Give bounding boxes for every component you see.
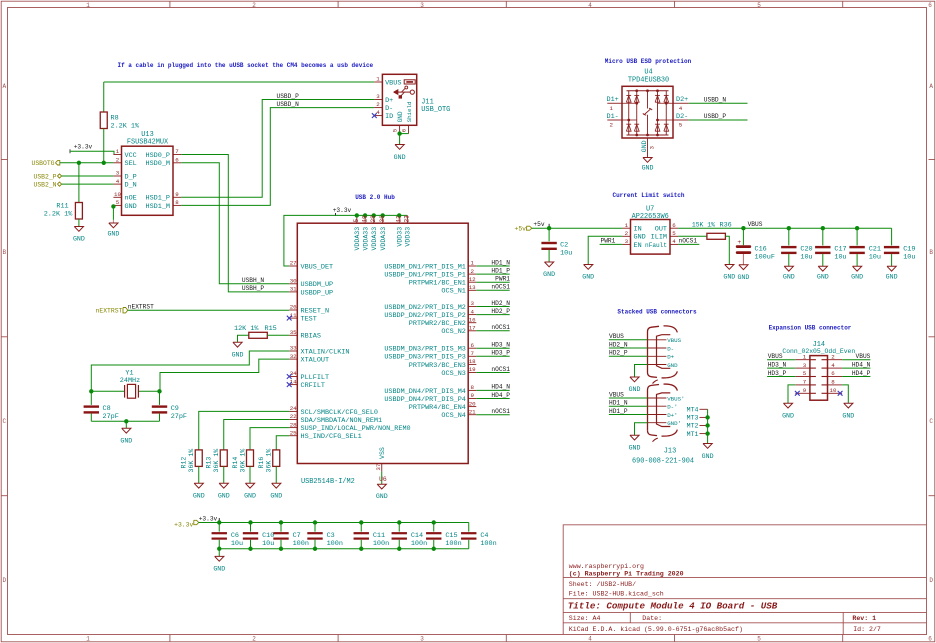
svg-text:HSD1_M: HSD1_M bbox=[146, 203, 170, 211]
hub +3.3v rail bbox=[284, 215, 336, 266]
svg-text:VBUS: VBUS bbox=[748, 221, 763, 228]
svg-text:C: C bbox=[929, 418, 933, 425]
svg-text:19: 19 bbox=[361, 215, 368, 223]
U4 pin2 D1- bbox=[607, 119, 622, 121]
U7 left pins bbox=[622, 227, 630, 229]
svg-text:GND: GND bbox=[642, 165, 654, 172]
svg-text:5: 5 bbox=[392, 128, 399, 132]
svg-text:GND: GND bbox=[232, 351, 244, 358]
svg-text:D1+: D1+ bbox=[607, 96, 619, 104]
svg-text:VDD33: VDD33 bbox=[405, 227, 412, 247]
svg-text:USBDP_DN4/PRT_DIS_P4: USBDP_DN4/PRT_DIS_P4 bbox=[384, 396, 466, 404]
svg-text:A: A bbox=[2, 83, 6, 90]
ground under U4 bbox=[643, 158, 652, 163]
svg-text:FSUSB42MUX: FSUSB42MUX bbox=[127, 139, 169, 147]
svg-text:23: 23 bbox=[404, 215, 411, 223]
frame row ticks bbox=[1, 159, 7, 161]
J14 pin7 to ground bbox=[788, 385, 795, 403]
svg-text:2: 2 bbox=[252, 2, 256, 9]
svg-text:5: 5 bbox=[757, 2, 761, 9]
svg-text:USB2514B-I/M2: USB2514B-I/M2 bbox=[301, 478, 355, 486]
svg-text:6: 6 bbox=[831, 370, 835, 377]
svg-text:U4: U4 bbox=[644, 69, 652, 77]
svg-text:12: 12 bbox=[396, 215, 403, 223]
svg-text:3: 3 bbox=[376, 93, 380, 100]
svg-text:1: 1 bbox=[86, 2, 90, 9]
resistor R11 bbox=[78, 163, 80, 203]
svg-text:MT1: MT1 bbox=[687, 431, 699, 438]
svg-text:USB_OTG: USB_OTG bbox=[421, 106, 450, 114]
svg-text:Expansion USB connector: Expansion USB connector bbox=[769, 325, 852, 332]
svg-text:100n: 100n bbox=[411, 540, 427, 548]
svg-text:OCS_N1: OCS_N1 bbox=[441, 288, 465, 296]
svg-text:2: 2 bbox=[470, 268, 474, 275]
ground under hub VSS bbox=[377, 484, 386, 489]
svg-text:GND: GND bbox=[702, 453, 714, 460]
svg-text:D+: D+ bbox=[385, 97, 393, 105]
svg-text:+: + bbox=[737, 239, 741, 246]
svg-text:4: 4 bbox=[116, 178, 120, 185]
svg-text:4: 4 bbox=[679, 105, 683, 112]
svg-text:GND: GND bbox=[218, 492, 230, 499]
wire SCL to R12 bbox=[199, 411, 289, 450]
wire USBD_N from U4 bbox=[689, 102, 748, 104]
svg-text:nEXTRST: nEXTRST bbox=[96, 308, 123, 315]
ground under R15 bbox=[233, 342, 242, 347]
wire gnd rail bbox=[219, 548, 469, 550]
svg-text:D-': D-' bbox=[667, 404, 677, 411]
ground under C6 bbox=[218, 549, 220, 557]
svg-text:28: 28 bbox=[370, 215, 377, 223]
wire VBUS rail bbox=[743, 227, 891, 229]
svg-text:21: 21 bbox=[469, 408, 476, 415]
svg-text:HD1_P: HD1_P bbox=[491, 267, 510, 274]
svg-text:USBD_P: USBD_P bbox=[704, 113, 727, 120]
svg-text:HD1_N: HD1_N bbox=[491, 259, 510, 266]
svg-text:Date:: Date: bbox=[642, 615, 662, 622]
ground under U13 pin5 bbox=[111, 204, 115, 208]
wire VBUS to J11 pin1 bbox=[104, 81, 375, 83]
svg-text:R16: R16 bbox=[258, 457, 265, 469]
svg-text:C14: C14 bbox=[411, 532, 423, 540]
decoupling caps on VBUS bbox=[788, 228, 790, 245]
svg-text:EN: EN bbox=[634, 242, 642, 250]
svg-text:GND: GND bbox=[376, 493, 388, 500]
svg-text:SEL: SEL bbox=[125, 160, 137, 168]
svg-text:R14: R14 bbox=[232, 457, 239, 469]
svg-text:PRTPWR3/BC_EN3: PRTPWR3/BC_EN3 bbox=[409, 362, 466, 370]
J14 pin9 no-connect bbox=[795, 391, 800, 396]
svg-text:USBOTG: USBOTG bbox=[31, 160, 54, 167]
ground under R14 bbox=[245, 483, 254, 488]
U4 center zener bbox=[647, 91, 649, 109]
U4 internal rails bbox=[627, 90, 669, 92]
svg-text:KiCad E.D.A. kicad (5.99.0-67: KiCad E.D.A. kicad (5.99.0-6751-g76ac8b5… bbox=[569, 626, 743, 633]
svg-text:2: 2 bbox=[610, 122, 614, 129]
svg-text:C11: C11 bbox=[373, 532, 385, 540]
svg-text:HSD0_P: HSD0_P bbox=[146, 152, 170, 160]
resistor R8 bbox=[103, 82, 105, 112]
svg-text:nEXTRST: nEXTRST bbox=[128, 303, 154, 310]
svg-text:1: 1 bbox=[116, 148, 120, 155]
title block outline bbox=[563, 525, 926, 635]
svg-text:USB2_P: USB2_P bbox=[33, 173, 56, 180]
capacitor C9 bbox=[159, 391, 161, 405]
svg-text:1: 1 bbox=[376, 76, 380, 83]
svg-text:17: 17 bbox=[469, 325, 476, 332]
svg-text:11: 11 bbox=[290, 312, 297, 319]
U4 GND pin3 bbox=[647, 138, 649, 151]
svg-text:+3.3v: +3.3v bbox=[174, 521, 193, 528]
svg-text:14: 14 bbox=[290, 378, 297, 385]
svg-text:USB 2.0 Hub: USB 2.0 Hub bbox=[355, 194, 395, 201]
svg-text:36K 1%: 36K 1% bbox=[188, 449, 195, 473]
svg-text:OUT: OUT bbox=[655, 226, 667, 234]
junction at R11 branch bbox=[77, 161, 81, 165]
svg-text:GND: GND bbox=[667, 362, 678, 369]
svg-text:HD3_P: HD3_P bbox=[768, 370, 787, 377]
wire SUSP_IND to R14 bbox=[250, 428, 289, 450]
svg-text:4: 4 bbox=[376, 109, 380, 116]
J13 upper gnd bbox=[635, 365, 648, 378]
capacitor C10 bbox=[248, 520, 252, 524]
svg-text:6: 6 bbox=[928, 636, 932, 643]
wire USBOTG to U13 SEL bbox=[60, 162, 114, 164]
svg-text:HD3_P: HD3_P bbox=[491, 350, 510, 357]
svg-text:9: 9 bbox=[470, 392, 474, 399]
ground under R11 bbox=[74, 227, 83, 232]
svg-text:+3.3v: +3.3v bbox=[74, 144, 93, 151]
wire MT pins to ground bbox=[707, 409, 709, 443]
svg-text:VDDA33: VDDA33 bbox=[371, 227, 378, 251]
svg-text:3: 3 bbox=[470, 300, 474, 307]
svg-text:31: 31 bbox=[290, 286, 297, 293]
svg-text:30: 30 bbox=[290, 278, 297, 285]
svg-text:nOCS1: nOCS1 bbox=[491, 366, 510, 373]
svg-text:IN: IN bbox=[634, 226, 642, 234]
svg-text:VSS: VSS bbox=[379, 447, 386, 459]
svg-text:GND: GND bbox=[193, 492, 205, 499]
svg-text:VBUS: VBUS bbox=[667, 337, 681, 344]
J11 usb logo bbox=[398, 91, 411, 93]
power +3.3v at U13 pin1 bbox=[69, 149, 71, 153]
ground under R36 bbox=[725, 265, 734, 270]
svg-text:2: 2 bbox=[625, 230, 629, 237]
junction crystal right bbox=[157, 389, 161, 393]
wire +3.3v rail bbox=[199, 522, 469, 524]
connector J13 lower shell bbox=[648, 385, 660, 431]
svg-text:D: D bbox=[929, 577, 933, 584]
svg-text:GND: GND bbox=[120, 437, 132, 444]
mux U13 body bbox=[122, 146, 174, 215]
svg-text:5: 5 bbox=[757, 636, 761, 643]
svg-text:10u: 10u bbox=[903, 254, 915, 262]
J11 blade graphic bbox=[404, 80, 415, 84]
J13 upper wires bbox=[609, 339, 648, 341]
wire HSD1_M to J11 D- bbox=[181, 108, 374, 206]
svg-text:TPD4EUSB30: TPD4EUSB30 bbox=[628, 76, 669, 84]
J11 pin4 ID no-connect bbox=[374, 115, 382, 117]
svg-text:GND: GND bbox=[817, 274, 829, 281]
J11 pins 5 and 6 stubs bbox=[399, 125, 401, 133]
hub VSS pin 37 bbox=[381, 464, 383, 472]
svg-text:HSD1_P: HSD1_P bbox=[146, 195, 170, 203]
svg-text:28: 28 bbox=[290, 421, 297, 428]
wire HSD0_P to hub USBDP_UP bbox=[181, 155, 289, 292]
svg-text:HD1_P: HD1_P bbox=[609, 408, 628, 415]
ground under R16 bbox=[272, 483, 281, 488]
svg-text:3: 3 bbox=[420, 636, 424, 643]
svg-text:20: 20 bbox=[469, 400, 476, 407]
svg-text:USBD_N: USBD_N bbox=[704, 96, 727, 103]
svg-text:10: 10 bbox=[830, 387, 837, 394]
svg-text:www.raspberrypi.org: www.raspberrypi.org bbox=[569, 563, 644, 570]
svg-text:9: 9 bbox=[803, 387, 807, 394]
svg-text:Size: A4: Size: A4 bbox=[569, 615, 601, 622]
svg-text:+5v: +5v bbox=[533, 221, 544, 228]
svg-text:1: 1 bbox=[86, 636, 90, 643]
svg-text:4: 4 bbox=[672, 238, 676, 245]
svg-text:8: 8 bbox=[470, 384, 474, 391]
capacitor C4 bbox=[468, 523, 470, 532]
svg-text:nFault: nFault bbox=[645, 242, 667, 249]
resistor R14 bbox=[247, 450, 254, 467]
J11 pin2 D- bbox=[374, 107, 382, 109]
svg-text:22: 22 bbox=[290, 413, 297, 420]
ground under crystal bbox=[122, 428, 131, 433]
svg-text:USB2_N: USB2_N bbox=[33, 182, 56, 189]
svg-text:SDA/SMBDATA/NON_REM1: SDA/SMBDATA/NON_REM1 bbox=[301, 417, 383, 425]
svg-text:MT3: MT3 bbox=[687, 415, 699, 422]
frame column ticks bbox=[169, 1, 171, 7]
svg-text:Current Limit switch: Current Limit switch bbox=[612, 192, 684, 199]
svg-text:R13: R13 bbox=[206, 457, 213, 469]
svg-text:100uF: 100uF bbox=[755, 253, 775, 261]
svg-text:HD3_N: HD3_N bbox=[491, 342, 510, 349]
svg-text:PWR1: PWR1 bbox=[495, 276, 510, 283]
svg-text:VDDA33: VDDA33 bbox=[380, 227, 387, 251]
ground under R13 bbox=[219, 483, 228, 488]
svg-text:32: 32 bbox=[290, 353, 297, 360]
svg-text:Shield: Shield bbox=[406, 102, 413, 123]
svg-text:HD4_N: HD4_N bbox=[491, 384, 510, 391]
svg-text:Id: 2/7: Id: 2/7 bbox=[853, 626, 881, 633]
svg-text:100n: 100n bbox=[373, 540, 389, 548]
svg-text:If a cable in plugged into the: If a cable in plugged into the uUSB sock… bbox=[118, 62, 374, 69]
wire USB2_P to U13 D_P bbox=[62, 175, 114, 177]
ground under U7 pin2 bbox=[584, 265, 593, 270]
wire +5v to U7 IN bbox=[532, 227, 623, 229]
svg-text:USBDP_DN3/PRT_DIS_P3: USBDP_DN3/PRT_DIS_P3 bbox=[384, 354, 466, 362]
J13 lower gnd bbox=[635, 423, 648, 436]
svg-text:B: B bbox=[929, 249, 933, 256]
wire XTALIN bbox=[91, 351, 289, 391]
U4 pin1 D1+ bbox=[607, 102, 622, 104]
svg-text:VDD33: VDD33 bbox=[396, 227, 403, 247]
hub top power pins bbox=[356, 215, 358, 223]
J11 pin3 D+ bbox=[374, 99, 382, 101]
svg-text:nOCS1: nOCS1 bbox=[679, 238, 698, 245]
hub TEST no-connect bbox=[287, 316, 292, 321]
svg-text:4: 4 bbox=[831, 362, 835, 369]
svg-text:GND: GND bbox=[244, 492, 256, 499]
svg-text:6: 6 bbox=[928, 2, 932, 9]
svg-text:HSD0_M: HSD0_M bbox=[146, 160, 170, 168]
U4 pin5 D2- bbox=[673, 119, 689, 121]
svg-text:24: 24 bbox=[290, 405, 297, 412]
svg-text:HS_IND/CFG_SEL1: HS_IND/CFG_SEL1 bbox=[301, 433, 362, 441]
svg-text:USBDP_DN2/PRT_DIS_P2: USBDP_DN2/PRT_DIS_P2 bbox=[384, 312, 466, 320]
svg-text:Stacked USB connectors: Stacked USB connectors bbox=[617, 309, 697, 316]
svg-text:+5v: +5v bbox=[514, 226, 526, 233]
svg-text:VCC: VCC bbox=[125, 152, 137, 160]
svg-text:10u: 10u bbox=[834, 254, 846, 262]
svg-text:8: 8 bbox=[175, 199, 179, 206]
wire HS_IND to R16 bbox=[276, 436, 289, 450]
svg-text:MT2: MT2 bbox=[687, 423, 699, 430]
wire J11 shield to ground bbox=[400, 133, 409, 135]
svg-text:D: D bbox=[2, 577, 6, 584]
svg-text:10: 10 bbox=[114, 191, 121, 198]
svg-text:C21: C21 bbox=[869, 246, 881, 254]
svg-text:HD2_N: HD2_N bbox=[491, 300, 510, 307]
svg-text:SCL/SMBCLK/CFG_SEL0: SCL/SMBCLK/CFG_SEL0 bbox=[301, 409, 379, 417]
hub U6 body bbox=[297, 223, 468, 463]
svg-text:GND: GND bbox=[629, 444, 641, 451]
capacitor C14 bbox=[397, 520, 401, 524]
svg-text:R11: R11 bbox=[56, 203, 68, 211]
svg-text:File: USB2-HUB.kicad_sch: File: USB2-HUB.kicad_sch bbox=[569, 590, 664, 597]
svg-text:36K 1%: 36K 1% bbox=[266, 449, 273, 473]
svg-text:4: 4 bbox=[588, 636, 592, 643]
svg-text:1: 1 bbox=[470, 260, 474, 267]
svg-text:5: 5 bbox=[679, 122, 683, 129]
hub PLLFILT no-connect bbox=[287, 374, 292, 379]
svg-text:GND: GND bbox=[213, 566, 225, 573]
svg-text:VBUS: VBUS bbox=[856, 353, 871, 360]
svg-text:D-: D- bbox=[385, 105, 393, 113]
svg-text:5: 5 bbox=[672, 230, 676, 237]
svg-text:26: 26 bbox=[290, 304, 297, 311]
wire crystal caps to ground bbox=[91, 420, 159, 422]
hub left pins bbox=[289, 265, 297, 267]
svg-text:C8: C8 bbox=[103, 405, 111, 413]
svg-text:VDDA33: VDDA33 bbox=[362, 227, 369, 251]
J14 right wires bbox=[842, 359, 870, 361]
svg-text:USBDM_UP: USBDM_UP bbox=[301, 281, 334, 289]
svg-text:9: 9 bbox=[175, 191, 179, 198]
svg-text:HD2_N: HD2_N bbox=[609, 341, 628, 348]
svg-text:USBH_N: USBH_N bbox=[242, 277, 265, 284]
svg-text:GND: GND bbox=[629, 386, 641, 393]
svg-text:2.2K 1%: 2.2K 1% bbox=[111, 123, 140, 131]
svg-text:VBUS: VBUS bbox=[609, 391, 624, 398]
wire +3.3v to U13 VCC bbox=[70, 151, 114, 154]
svg-text:VBUS: VBUS bbox=[768, 353, 783, 360]
svg-text:100n: 100n bbox=[327, 540, 343, 548]
svg-text:GND: GND bbox=[270, 492, 282, 499]
resistor R13 bbox=[220, 450, 227, 467]
capacitor C11 bbox=[359, 520, 363, 524]
wire XTALOUT bbox=[160, 359, 289, 391]
svg-text:6: 6 bbox=[672, 222, 676, 229]
svg-text:C19: C19 bbox=[903, 246, 915, 254]
svg-text:12: 12 bbox=[469, 276, 476, 283]
svg-text:XTALIN/CLKIN: XTALIN/CLKIN bbox=[301, 348, 350, 356]
svg-text:GND: GND bbox=[394, 154, 406, 161]
svg-text:35: 35 bbox=[290, 329, 297, 336]
svg-text:RBIAS: RBIAS bbox=[301, 333, 321, 341]
svg-text:GND: GND bbox=[634, 234, 646, 242]
svg-text:D+: D+ bbox=[667, 354, 674, 361]
capacitor C19 bbox=[891, 228, 893, 245]
svg-text:D_P: D_P bbox=[125, 173, 137, 181]
svg-text:GND: GND bbox=[783, 274, 795, 281]
svg-text:GND: GND bbox=[125, 203, 137, 211]
svg-text:HD4_N: HD4_N bbox=[852, 362, 871, 369]
svg-text:18: 18 bbox=[469, 358, 476, 365]
svg-text:8: 8 bbox=[831, 379, 835, 386]
svg-text:HD4_P: HD4_P bbox=[852, 370, 871, 377]
wire nEXTRST to RESET_N bbox=[128, 309, 289, 311]
svg-text:VBUS: VBUS bbox=[385, 79, 401, 87]
ground under R12 bbox=[194, 483, 203, 488]
svg-text:VBUS_DET: VBUS_DET bbox=[301, 263, 334, 271]
svg-text:RESET_N: RESET_N bbox=[301, 307, 330, 315]
capacitor C2 bbox=[548, 228, 550, 241]
svg-text:R8: R8 bbox=[111, 115, 119, 123]
svg-text:GND: GND bbox=[582, 274, 594, 281]
svg-text:5: 5 bbox=[116, 199, 120, 206]
svg-text:R12: R12 bbox=[181, 457, 188, 469]
svg-text:C7: C7 bbox=[293, 532, 301, 540]
svg-text:MT4: MT4 bbox=[687, 407, 699, 414]
hub CRFILT no-connect bbox=[287, 382, 292, 387]
capacitor C16 polarized bbox=[742, 228, 744, 245]
svg-text:CRFILT: CRFILT bbox=[301, 382, 325, 390]
svg-text:J13: J13 bbox=[664, 448, 676, 456]
svg-text:U6: U6 bbox=[379, 476, 387, 483]
svg-text:6: 6 bbox=[470, 342, 474, 349]
svg-text:2.2K 1%: 2.2K 1% bbox=[44, 211, 73, 219]
capacitor C8 bbox=[90, 391, 92, 405]
svg-text:10u: 10u bbox=[800, 254, 812, 262]
svg-text:C4: C4 bbox=[480, 532, 488, 540]
svg-text:7: 7 bbox=[470, 350, 474, 357]
svg-text:HD4_P: HD4_P bbox=[491, 392, 510, 399]
svg-text:33: 33 bbox=[290, 345, 297, 352]
svg-text:6: 6 bbox=[175, 157, 179, 164]
U4 junction dots bbox=[635, 102, 638, 105]
svg-text:A: A bbox=[929, 83, 933, 90]
svg-text:PWR1: PWR1 bbox=[601, 238, 616, 245]
svg-text:27pF: 27pF bbox=[171, 413, 187, 421]
svg-text:GND: GND bbox=[737, 274, 749, 281]
svg-text:10u: 10u bbox=[231, 540, 243, 548]
capacitor C3 bbox=[313, 520, 317, 524]
svg-text:4: 4 bbox=[588, 2, 592, 9]
svg-text:nOCS1: nOCS1 bbox=[491, 324, 510, 331]
svg-text:C15: C15 bbox=[445, 532, 457, 540]
J13 lower wires bbox=[609, 397, 648, 399]
svg-text:GND: GND bbox=[886, 274, 898, 281]
svg-text:C20: C20 bbox=[800, 246, 812, 254]
svg-text:36: 36 bbox=[379, 215, 386, 223]
ground under J11 bbox=[395, 145, 404, 150]
svg-text:Micro USB ESD protection: Micro USB ESD protection bbox=[605, 58, 692, 65]
svg-text:1: 1 bbox=[803, 353, 807, 360]
svg-text:GND: GND bbox=[543, 271, 555, 278]
